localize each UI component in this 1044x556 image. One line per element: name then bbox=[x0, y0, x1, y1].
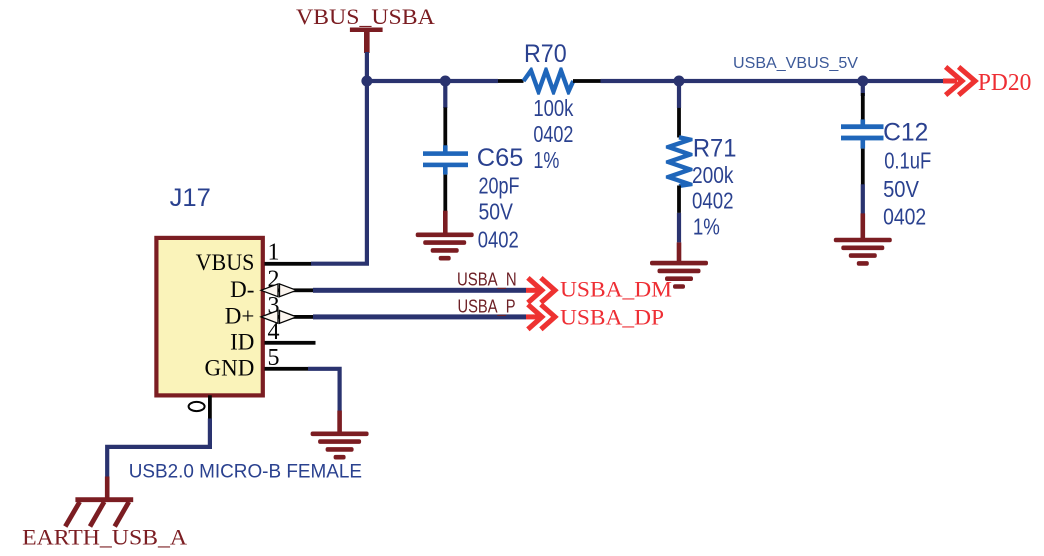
pin wire C12 top bbox=[861, 93, 865, 120]
wire USBA_P bbox=[313, 314, 526, 319]
svg-text:VBUS: VBUS bbox=[196, 250, 255, 275]
pin 2 stub bbox=[265, 288, 314, 292]
pin 0 number (rotated) bbox=[189, 402, 205, 411]
pin 5 stub bbox=[265, 367, 309, 371]
connector J17 body bbox=[156, 238, 262, 396]
wire R71 to ground bbox=[677, 213, 681, 243]
svg-text:0402: 0402 bbox=[883, 203, 926, 229]
pin 0 stub bbox=[208, 395, 212, 419]
wire pin1 to riser bbox=[311, 81, 367, 264]
ground symbol C12 bbox=[834, 238, 892, 266]
ground symbol R71 bbox=[650, 261, 708, 289]
svg-text:C12: C12 bbox=[883, 119, 928, 147]
resistor R71 bbox=[666, 135, 693, 188]
power port VBUS_USBA bar symbol bbox=[350, 28, 383, 54]
svg-text:PD20: PD20 bbox=[978, 69, 1031, 96]
junction dot at R71 bbox=[674, 76, 685, 87]
wire main horizontal right of R70 bbox=[601, 79, 944, 83]
ground stem C12 bbox=[861, 213, 866, 238]
wire USBA_N bbox=[313, 288, 526, 293]
pin wire R71 top bbox=[677, 108, 681, 138]
capacitor C12 bbox=[841, 119, 884, 148]
svg-text:20pF: 20pF bbox=[479, 172, 520, 198]
svg-text:D+: D+ bbox=[225, 303, 255, 328]
pin wire R70 left bbox=[498, 79, 524, 83]
port USBA_DM chevron 1 bbox=[528, 278, 542, 303]
svg-text:0.1uF: 0.1uF bbox=[884, 147, 931, 173]
port USBA_DP tail bbox=[526, 314, 542, 319]
svg-text:USBA_N: USBA_N bbox=[457, 270, 517, 291]
svg-text:0402: 0402 bbox=[692, 188, 734, 214]
junction dot at C12 bbox=[857, 76, 868, 87]
pin 3 IO arrows bbox=[261, 311, 297, 324]
pin wire R70 right bbox=[573, 79, 601, 83]
pin 4 stub bbox=[265, 341, 316, 345]
port PD20 chevron 2 bbox=[959, 67, 975, 95]
svg-text:1: 1 bbox=[268, 240, 280, 266]
wire VBUS stem bbox=[365, 52, 369, 83]
svg-text:J17: J17 bbox=[170, 184, 211, 212]
pin 3 stub bbox=[265, 315, 314, 319]
wire C65 upper bbox=[443, 81, 447, 108]
pin wire R71 bottom bbox=[677, 186, 681, 213]
earth symbol EARTH_USB_A bbox=[65, 500, 133, 527]
svg-text:0402: 0402 bbox=[478, 226, 519, 252]
pin wire C12 bottom bbox=[861, 149, 865, 185]
svg-text:D-: D- bbox=[230, 277, 254, 302]
port USBA_DP chevron 1 bbox=[528, 305, 542, 330]
pin 1 stub bbox=[265, 262, 312, 266]
svg-text:C65: C65 bbox=[477, 144, 524, 172]
wire GND net bbox=[308, 369, 340, 411]
resistor R70 bbox=[522, 67, 576, 94]
wire R71 upper bbox=[677, 81, 681, 108]
svg-text:200k: 200k bbox=[692, 162, 734, 188]
svg-text:50V: 50V bbox=[883, 176, 919, 202]
svg-text:1%: 1% bbox=[533, 147, 559, 173]
svg-text:GND: GND bbox=[205, 355, 255, 380]
svg-text:50V: 50V bbox=[479, 199, 514, 225]
wire C12 upper bbox=[861, 81, 865, 96]
ground stem GND bbox=[337, 411, 342, 433]
earth stem bbox=[105, 477, 110, 500]
ground symbol GND bbox=[311, 432, 369, 460]
svg-text:USBA_DM: USBA_DM bbox=[560, 276, 672, 301]
port PD20 tail bbox=[943, 79, 957, 84]
wire C12 to ground bbox=[861, 184, 865, 214]
port USBA_DP chevron 2 bbox=[541, 305, 555, 330]
wire shield net bbox=[107, 419, 210, 478]
svg-text:EARTH_USB_A: EARTH_USB_A bbox=[22, 525, 187, 550]
svg-text:0402: 0402 bbox=[533, 121, 573, 147]
svg-text:R71: R71 bbox=[693, 135, 737, 163]
svg-text:USB2.0 MICRO-B FEMALE: USB2.0 MICRO-B FEMALE bbox=[129, 461, 362, 482]
svg-text:R70: R70 bbox=[524, 40, 567, 68]
svg-text:ID: ID bbox=[230, 329, 254, 354]
pin 2 IO arrows bbox=[261, 284, 297, 297]
junction dot at C65 bbox=[440, 76, 451, 87]
junction dot at VBUS stem bbox=[361, 76, 372, 87]
svg-text:100k: 100k bbox=[533, 95, 573, 121]
capacitor C65 bbox=[423, 145, 468, 174]
pin wire C65 bottom bbox=[443, 175, 447, 212]
port USBA_DM chevron 2 bbox=[541, 278, 555, 303]
wire main horizontal net y=81 bbox=[365, 79, 498, 83]
port PD20 chevron 1 bbox=[946, 67, 962, 95]
ground stem R71 bbox=[677, 242, 682, 262]
svg-text:USBA_P: USBA_P bbox=[458, 296, 516, 317]
ground stem C65 bbox=[443, 211, 448, 234]
svg-text:VBUS_USBA: VBUS_USBA bbox=[296, 4, 436, 29]
port USBA_DM tail bbox=[526, 288, 542, 293]
ground symbol C65 bbox=[416, 233, 474, 261]
svg-text:USBA_DP: USBA_DP bbox=[560, 305, 664, 330]
pin wire C65 top bbox=[443, 107, 447, 146]
svg-text:USBA_VBUS_5V: USBA_VBUS_5V bbox=[733, 55, 858, 72]
svg-text:1%: 1% bbox=[693, 214, 720, 240]
